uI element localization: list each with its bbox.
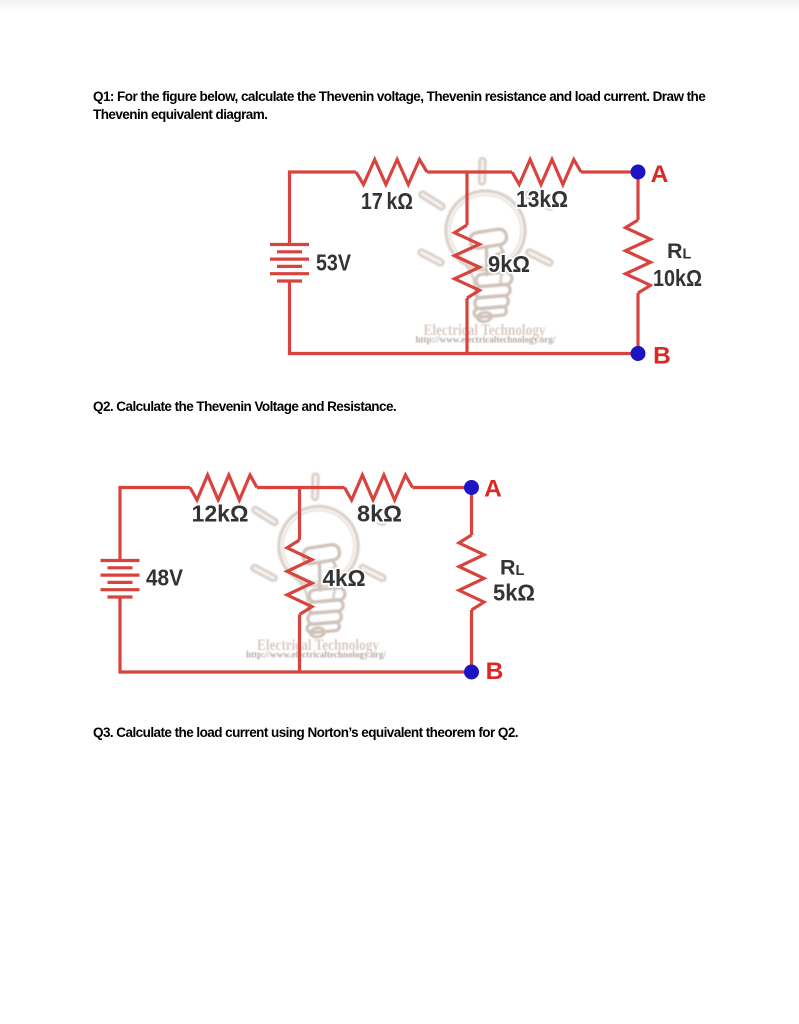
wire: top rail middle segment <box>427 170 512 173</box>
svg-text:12kΩ: 12kΩ <box>192 501 249 527</box>
wire: top rail middle segment <box>257 486 345 489</box>
wire: node A down to load resistor <box>636 172 639 220</box>
wire: left rail top corner segment <box>290 172 357 245</box>
resistor R1 17 kOhm (series, top left) <box>356 160 427 185</box>
wire: load resistor to node B <box>636 293 639 354</box>
svg-text:10kΩ: 10kΩ <box>653 265 702 291</box>
wire: battery negative down and bottom rail to node B <box>120 597 472 672</box>
resistor R2 13 kOhm (series, top right) <box>512 160 581 185</box>
svg-text:RL: RL <box>500 556 525 580</box>
resistor R2 8 kOhm (series, top right) <box>345 475 413 500</box>
wire: middle branch lower segment <box>298 615 301 673</box>
watermark text Electrical Technology (figure 2) <box>246 637 386 660</box>
svg-text:53V: 53V <box>316 250 351 276</box>
load resistor RL 5 kOhm (right branch) <box>459 535 484 610</box>
wire: middle branch upper segment <box>298 488 301 541</box>
svg-text:48V: 48V <box>146 565 183 591</box>
wire: battery negative down and bottom rail to node B <box>290 281 639 354</box>
wire: top rail to node A <box>413 486 472 489</box>
svg-text:13kΩ: 13kΩ <box>516 186 568 212</box>
svg-text:A: A <box>651 161 669 188</box>
svg-text:http://www.electricaltechnolog: http://www.electricaltechnology.org/ <box>416 335 556 345</box>
node A terminal dot <box>464 480 479 495</box>
question Q3 text <box>93 724 518 742</box>
node B terminal dot <box>464 665 479 680</box>
svg-text:A: A <box>484 476 502 503</box>
wire: load resistor to node B <box>470 610 473 672</box>
svg-text:9kΩ: 9kΩ <box>488 251 530 277</box>
svg-text:8kΩ: 8kΩ <box>357 501 402 527</box>
node B terminal dot <box>631 346 646 361</box>
watermark light-bulb logo (figure 1) <box>422 161 550 322</box>
wire: node A down to load resistor <box>470 488 473 536</box>
wire: middle branch upper segment <box>465 172 468 225</box>
svg-text:17 kΩ: 17 kΩ <box>361 188 413 214</box>
resistor R3 4 kOhm (shunt, middle branch) <box>287 540 312 615</box>
watermark text Electrical Technology (figure 1) <box>416 322 556 345</box>
svg-text:B: B <box>486 658 504 685</box>
svg-text:http://www.electricaltechnolog: http://www.electricaltechnology.org/ <box>246 650 386 660</box>
wire: top rail to node A <box>581 170 638 173</box>
svg-text:4kΩ: 4kΩ <box>323 565 366 591</box>
svg-text:5kΩ: 5kΩ <box>493 580 535 606</box>
battery source 53V <box>270 245 309 282</box>
svg-text:B: B <box>653 343 671 370</box>
question Q1 text <box>93 88 705 124</box>
resistor R3 9 kOhm (shunt, middle branch) <box>455 225 480 298</box>
watermark light-bulb logo (figure 2) <box>255 477 383 638</box>
svg-text:RL: RL <box>667 239 692 263</box>
wire: left rail top corner segment <box>120 488 190 561</box>
load resistor RL 10 kOhm (right branch) <box>626 220 651 293</box>
question Q2 text <box>93 398 396 416</box>
resistor R1 12 kOhm (series, top left) <box>190 475 257 500</box>
node A terminal dot <box>631 165 646 180</box>
battery source 48V <box>101 561 140 598</box>
wire: middle branch lower segment <box>465 298 468 354</box>
